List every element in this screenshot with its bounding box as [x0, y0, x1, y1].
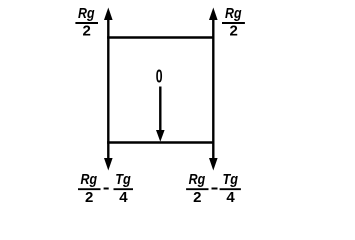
label Rg/2 - Tg/4 bottom-right: [186, 171, 241, 206]
svg-text:Rg: Rg: [225, 5, 242, 22]
svg-text:0: 0: [156, 67, 163, 87]
wire right vertical member: [212, 13, 214, 163]
wire left vertical member: [107, 13, 109, 163]
label Rg/2 top-left: [75, 5, 98, 40]
label 0 center: [156, 67, 163, 87]
svg-text:2: 2: [85, 189, 93, 206]
arrowhead bottom-right down: [209, 158, 218, 171]
arrowhead center down: [156, 130, 165, 142]
arrowhead bottom-left down: [104, 158, 113, 171]
svg-text:Tg: Tg: [222, 171, 238, 188]
svg-text:4: 4: [226, 189, 235, 206]
svg-text:Rg: Rg: [189, 171, 206, 188]
wire center arrow shaft: [159, 87, 161, 135]
svg-text:Rg: Rg: [78, 5, 95, 22]
label Rg/2 - Tg/4 bottom-left: [78, 171, 133, 206]
svg-text:4: 4: [119, 189, 128, 206]
svg-text:2: 2: [193, 189, 201, 206]
arrowhead top-right up: [209, 8, 218, 21]
wire bottom edge of square: [107, 141, 214, 144]
svg-text:2: 2: [230, 23, 238, 40]
label Rg/2 top-right: [222, 5, 245, 40]
svg-text:Rg: Rg: [81, 171, 98, 188]
svg-text:Tg: Tg: [115, 171, 131, 188]
wire top edge of square: [107, 36, 214, 39]
arrowhead top-left up: [104, 8, 113, 21]
svg-text:2: 2: [83, 23, 91, 40]
